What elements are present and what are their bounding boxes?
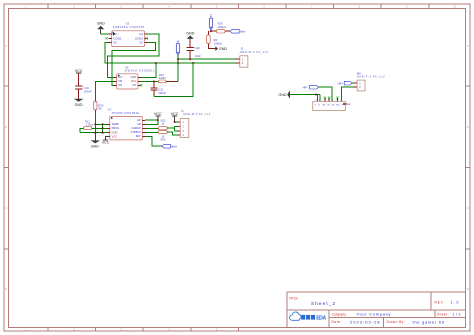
svg-text:100kΩ: 100kΩ [214,41,222,45]
svg-text:Date:: Date: [332,320,342,324]
svg-text:VM: VM [118,79,122,83]
ground GND below C19 [74,99,84,107]
svg-text:TEMP: TEMP [112,122,119,126]
svg-text:Your Company: Your Company [357,312,391,317]
svg-text:HP-: HP- [303,85,308,89]
wire HP- to jack [319,87,332,101]
svg-text:Bat+: Bat+ [171,144,177,148]
svg-text:VCC: VCC [75,69,83,73]
wire EP/CE to VCC [145,120,158,124]
svg-text:9K: 9K [98,107,102,111]
svg-text:GND: GND [186,31,195,35]
wire M4 pin2 to jack [341,87,353,101]
ground GND above C20 [186,31,195,39]
svg-text:GND: GND [91,145,100,149]
svg-text:100kΩ: 100kΩ [218,25,226,29]
wire GND row [80,132,108,134]
svg-text:TITLE:: TITLE: [289,296,299,300]
connector CN1 headphone jack [313,98,352,111]
wire flag to node [210,30,212,31]
svg-text:100Ω: 100Ω [159,76,166,80]
wire GND to S1 [101,33,112,35]
wire VCC to pin1 [175,121,178,123]
resistor R24 9K vertical [94,101,104,124]
transistor U2 FS8205A dual mosfet [109,22,148,47]
svg-text:HDR-M-2.54_1x2: HDR-M-2.54_1x2 [240,50,269,54]
svg-text:BAT: BAT [136,134,141,138]
svg-text:HDR-M-2.54_1x4: HDR-M-2.54_1x4 [183,112,211,116]
svg-text:CHRG#: CHRG# [132,126,142,130]
svg-text:Sheet:: Sheet: [437,313,449,317]
no-connect X on U5 NC [140,84,142,86]
svg-text:R23: R23 [161,138,166,142]
logo JLCEDA [290,312,327,322]
junction dot VCC node [153,80,155,82]
svg-text:EP: EP [137,118,141,122]
svg-text:GND: GND [97,22,106,26]
svg-text:B+: B+ [176,39,180,43]
svg-text:Drawn By:: Drawn By: [387,320,405,324]
resistor R16 100ohm [158,73,178,83]
svg-text:3: 3 [324,100,325,102]
chip U7 TP4056 [107,108,145,140]
svg-text:S2: S2 [113,41,117,45]
svg-text:D: D [5,287,7,291]
svg-text:VCC: VCC [131,79,137,83]
svg-text:GND: GND [131,75,137,79]
svg-text:4: 4 [328,100,329,102]
svg-text:1.0: 1.0 [451,301,459,305]
ground GND left-facing at jack [278,90,290,98]
wire BAT to Bat+ flag [145,136,162,146]
op-amp U5 DW01A [114,65,155,89]
net flag Bat- [230,29,246,33]
svg-text:5: 5 [332,100,333,102]
wire G1 loop to U5 DO [108,34,159,77]
svg-text:10uF: 10uF [195,54,202,58]
wire1 P+ rail to J2 pin1 [178,58,235,60]
wire R16 riser to wire2 [177,63,179,81]
wire U5 VCC to R16/C22 node [140,80,158,82]
resistor R25 100k [211,22,230,33]
resistor R21 prog [80,120,108,133]
wire HP+ to M4 pin1 [352,82,354,84]
svg-text:Bat-: Bat- [240,29,245,33]
svg-text:Company:: Company: [332,313,347,317]
svg-text:10: 10 [453,5,456,9]
net flag HP- [303,85,319,89]
svg-text:TP4056 C5010516: TP4056 C5010516 [111,111,139,115]
svg-text:VCC: VCC [102,141,110,145]
capacitor C19 100nF [75,86,92,99]
capacitor C20 10uF [187,39,202,59]
svg-text:A: A [5,44,7,48]
svg-text:DW01A C436801: DW01A C436801 [125,69,155,73]
ground GND at U2 S1 [97,22,106,35]
svg-text:GND: GND [112,131,118,135]
svg-text:PROG: PROG [112,126,120,130]
resistor R22 1k [145,118,167,129]
svg-text:1: 1 [316,100,317,102]
capacitor C22 100nF [150,81,166,96]
no-connect X on U2 right D1/D2 [146,37,148,39]
svg-text:GND: GND [74,103,83,107]
wire R23 to J1 pin4 [167,132,178,135]
power flag VCC at EP/CE [154,112,162,120]
svg-text:2: 2 [319,100,320,102]
svg-text:1/1: 1/1 [453,313,461,317]
svg-text:5V: 5V [209,14,213,17]
wire GND to jack pins [290,95,320,102]
svg-text:CD: CD [118,83,122,87]
ground GND right-facing at R6 [215,46,227,51]
power flag VCC at J1 pin1 [171,112,179,122]
svg-text:Sheet_2: Sheet_2 [311,301,335,306]
svg-text:STDBY#: STDBY# [131,130,142,134]
junction dots U7 left [94,123,103,133]
svg-text:HP+: HP+ [338,81,344,85]
wire TEMP row [95,123,107,125]
svg-text:FS8205A C909265: FS8205A C909265 [113,25,145,29]
resistor R23 1k [145,130,167,141]
svg-text:B: B [5,125,7,129]
svg-text:NC: NC [133,83,137,87]
svg-text:100nF: 100nF [158,91,166,95]
svg-text:CE: CE [137,122,141,126]
no-connect X marks on jack pins [324,96,326,98]
no-connect X on U2 left D1/D2 [105,37,107,39]
svg-text:6: 6 [337,100,338,102]
net flag B+ vertical near C20 [176,43,179,55]
svg-text:C: C [5,206,7,210]
junction dots top section [155,30,212,64]
svg-text:VCC: VCC [154,112,162,116]
connector M4 HDR-F-2.54_1x2 [354,71,386,91]
svg-text:REV:: REV: [435,301,445,305]
wire flag stem to wire1 [177,55,179,63]
connector J1 HDR-M-2.54_1x4 [178,109,211,138]
svg-text:HDR-F-2.54_1x2: HDR-F-2.54_1x2 [357,74,386,78]
ground GND below U7 [91,133,101,149]
svg-text:A: A [467,44,469,48]
wire R24 tail crossing to gnd row [94,124,96,132]
svg-text:VCC: VCC [112,135,118,139]
wire VM rail down to R24 [95,81,114,101]
wire R22 to J1 pins 2/3 [167,127,178,132]
wire temp-gnd tie [102,124,104,132]
svg-text:G2: G2 [139,41,143,45]
svg-text:1.5kΩ: 1.5kΩ [86,122,93,126]
net flag 5V vertical above R25 [209,18,212,30]
svg-text:2023-03-28: 2023-03-28 [350,319,380,324]
resistor R6 100k vertical [207,31,222,48]
svg-text:GND: GND [278,93,287,97]
svg-text:100nF: 100nF [84,89,92,93]
svg-text:GND: GND [219,47,228,51]
svg-text:VCC: VCC [171,112,179,116]
wire G2 loop to U5 CD [112,43,155,86]
power flag VCC at U7 VCC pin [102,137,110,145]
svg-text:the gamer 69: the gamer 69 [413,319,445,324]
svg-text:B: B [467,125,469,129]
svg-text:G: G [341,105,343,107]
wire riser U5 GND to wire1 [140,63,155,77]
svg-text:HP: HP [348,104,352,106]
net flag Bat+ [162,144,178,148]
wire C22 return loop to wire2 [154,63,193,97]
power flag VCC above C19 [75,69,83,86]
svg-text:C20: C20 [195,46,201,50]
svg-text:C: C [467,206,469,210]
wire S2 loop to B- rail (wire2) [105,43,235,64]
connector J2 HDR-M-2.54_1x2 [235,47,268,68]
svg-text:M: M [328,105,330,107]
svg-text:7: 7 [340,100,341,102]
svg-text:EDA: EDA [316,316,326,322]
svg-text:D: D [467,287,469,291]
net flag HP+ [338,81,352,85]
